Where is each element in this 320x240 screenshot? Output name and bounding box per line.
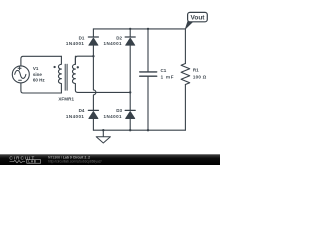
svg-text:1 mF: 1 mF: [161, 74, 175, 79]
node junction D2 / top rail: [129, 28, 131, 30]
wire left rail (x=93.4) with hop over y=92.4: [93, 29, 96, 130]
node junction C1 / top rail: [147, 28, 149, 30]
node junction ground / bottom rail: [102, 129, 104, 131]
wire secondary bottom to right rail: [75, 90, 130, 92]
svg-text:D2: D2: [116, 36, 122, 41]
label D1: [66, 36, 85, 47]
svg-text:V1: V1: [33, 66, 39, 71]
diode D4: [88, 110, 98, 118]
svg-text:Vout: Vout: [191, 14, 206, 21]
svg-text:D3: D3: [116, 108, 122, 113]
voltage source V1: [12, 66, 29, 83]
wire V1 loop bottom (from V1 bottom to primary bottom): [21, 83, 62, 93]
wire V1 loop top (from V1 top to primary top): [21, 56, 62, 66]
wire secondary top to left rail: [75, 56, 93, 64]
svg-text:100 Ω: 100 Ω: [193, 74, 207, 79]
resistor R1: [181, 29, 190, 130]
label V1 value: [33, 66, 46, 82]
svg-text:1N4001: 1N4001: [66, 114, 85, 119]
diode D3: [125, 110, 135, 118]
diode D1: [88, 37, 98, 45]
svg-text:D4: D4: [79, 108, 85, 113]
label C1: [161, 68, 175, 80]
label D3: [104, 108, 123, 119]
wire top rail: [93, 28, 185, 30]
diode D2: [125, 37, 135, 45]
svg-text:R1: R1: [193, 68, 199, 73]
svg-text:sine: sine: [33, 72, 43, 77]
node junction secondary-top / left rail: [92, 55, 94, 57]
flag Vout: [185, 12, 207, 29]
wire right rail (x=130.2): [129, 29, 131, 130]
footer bar: [0, 154, 220, 165]
node junction C1 / bottom rail: [147, 129, 149, 131]
ground: [96, 130, 110, 143]
svg-text:C1: C1: [161, 68, 167, 73]
capacitor C1: [140, 29, 157, 130]
svg-text:LAB: LAB: [28, 160, 36, 164]
node junction secondary-bottom / right rail: [129, 91, 131, 93]
transformer XFMR1 core: [65, 64, 67, 90]
wire bottom rail: [93, 129, 185, 131]
svg-text:XFMR1: XFMR1: [58, 97, 74, 102]
label D2: [104, 36, 123, 47]
svg-text:D1: D1: [79, 36, 85, 41]
svg-text:1N4001: 1N4001: [104, 114, 123, 119]
svg-text:1N4001: 1N4001: [104, 41, 123, 46]
logo CIRCUIT LAB: [9, 156, 40, 164]
transformer XFMR1 primary winding: [58, 56, 61, 93]
transformer XFMR1 secondary phasing dot: [77, 66, 79, 68]
transformer XFMR1 secondary winding: [72, 56, 75, 90]
label R1: [193, 68, 207, 80]
svg-text:http://circuitlab.com/c/sub3cp: http://circuitlab.com/c/sub3cp868ya2/: [48, 159, 102, 163]
node junction D3 / bottom rail: [129, 129, 131, 131]
label D4: [66, 108, 85, 119]
transformer XFMR1 primary phasing dot: [53, 66, 55, 68]
footer text: [48, 156, 102, 164]
svg-text:1N4001: 1N4001: [66, 41, 85, 46]
svg-text:60 Hz: 60 Hz: [33, 78, 46, 83]
